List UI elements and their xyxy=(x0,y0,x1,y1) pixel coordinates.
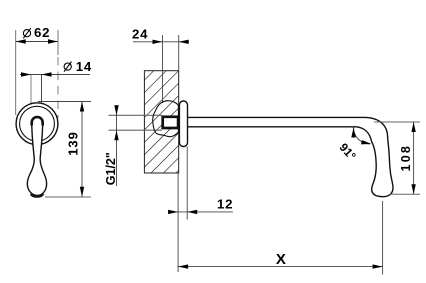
svg-text:91°: 91° xyxy=(337,140,360,163)
svg-text:108: 108 xyxy=(399,144,413,172)
svg-text:X: X xyxy=(276,251,286,268)
svg-text:62: 62 xyxy=(34,25,50,40)
svg-text:14: 14 xyxy=(76,59,92,74)
svg-text:G1/2": G1/2" xyxy=(104,152,118,185)
svg-text:24: 24 xyxy=(132,27,148,42)
svg-text:12: 12 xyxy=(217,196,233,211)
svg-text:139: 139 xyxy=(65,131,80,155)
